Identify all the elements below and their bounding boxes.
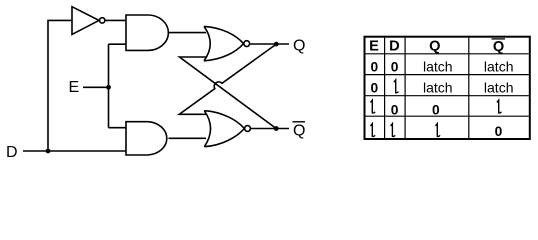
svg-text:latch: latch (484, 58, 514, 74)
svg-text:E: E (369, 39, 379, 55)
svg-text:D: D (6, 144, 18, 161)
svg-text:0: 0 (495, 124, 503, 139)
svg-text:latch: latch (423, 79, 453, 95)
svg-text:0: 0 (370, 80, 378, 95)
svg-text:Q: Q (293, 123, 305, 140)
svg-text:latch: latch (484, 79, 514, 95)
svg-text:E: E (69, 79, 80, 96)
svg-text:0: 0 (432, 102, 440, 117)
svg-text:0: 0 (370, 59, 378, 74)
svg-text:Q: Q (493, 39, 504, 55)
svg-text:0: 0 (391, 102, 399, 117)
svg-text:Q: Q (429, 39, 440, 55)
svg-text:0: 0 (391, 59, 399, 74)
svg-text:D: D (389, 39, 400, 55)
svg-text:Q: Q (293, 38, 305, 55)
svg-text:latch: latch (423, 58, 453, 74)
